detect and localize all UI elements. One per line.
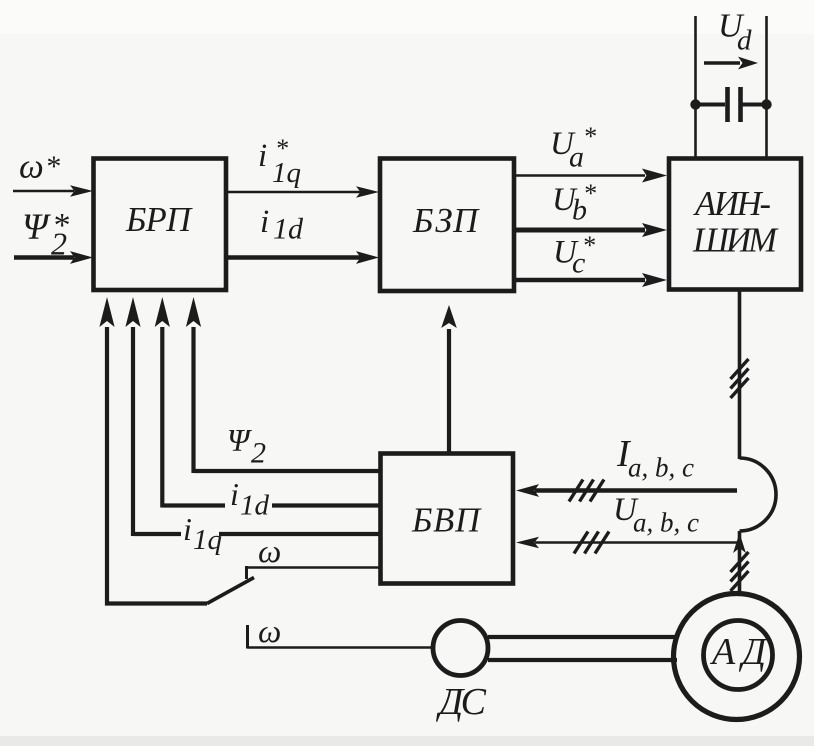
block БЗП [380, 159, 514, 292]
label ω estimated [258, 534, 281, 570]
wire 3-phase to motor lower [738, 531, 742, 594]
wire Ψ2 БВП to БРП [186, 297, 381, 473]
label Ψ2 [227, 422, 266, 470]
label i1q* [258, 134, 301, 189]
wire ω from ДС [248, 646, 434, 649]
wire ω from БВП [247, 566, 381, 569]
shaft lower line [488, 658, 677, 662]
svg-text:ω: ω [258, 614, 281, 650]
block БРП [94, 159, 227, 291]
motor АД inner circle [704, 621, 773, 690]
wire Ud left vertical [694, 16, 697, 159]
svg-text:БВП: БВП [411, 502, 482, 540]
switch contact upper [245, 566, 248, 579]
label АД [709, 631, 768, 673]
arrow Ud direction [704, 57, 758, 70]
svg-text:ДС: ДС [436, 681, 487, 723]
block БВП [381, 454, 514, 584]
shaft upper line [488, 635, 677, 639]
svg-text:БЗП: БЗП [412, 202, 480, 240]
wire Uc* БЗП to АИН-ШИМ [514, 273, 667, 287]
label i1d feedback [230, 476, 270, 522]
slash marks U a,b,c [574, 532, 609, 554]
slash marks 3-phase upper [731, 359, 749, 398]
label Ua* [550, 122, 596, 174]
arrow voltage tap [733, 533, 746, 553]
junction dot left [690, 99, 700, 109]
label Uc* [553, 231, 595, 280]
switch contact lower [246, 625, 249, 649]
wire ω common to БРП [99, 297, 207, 606]
svg-text:БРП: БРП [125, 201, 193, 239]
slash marks 3-phase lower [731, 552, 749, 591]
wire Ub* БЗП to АИН-ШИМ [514, 223, 667, 237]
label U a,b,c [613, 492, 699, 538]
block АИН-ШИМ [669, 159, 801, 290]
wire i1d БРП to БЗП [226, 251, 379, 264]
wire i1d БВП to БРП [155, 297, 381, 508]
svg-text:ω*: ω* [19, 147, 60, 186]
label i1q feedback [183, 511, 222, 556]
current sensor loop [740, 458, 776, 531]
wire i1q* БРП to БЗП [226, 186, 379, 198]
svg-text:ШИМ: ШИМ [692, 222, 779, 260]
slash marks I a,b,c [569, 480, 604, 502]
wire 3-phase АИН-ШИМ to motor upper [738, 290, 742, 459]
wire Ud right vertical [765, 16, 768, 159]
label Ud [718, 8, 752, 57]
label ω* [19, 147, 60, 186]
junction dot right [761, 99, 771, 109]
svg-text:АИН-: АИН- [693, 185, 771, 223]
switch blade [207, 578, 254, 604]
wire i1q БВП to БРП [125, 297, 380, 536]
capacitor C filter [696, 87, 767, 122]
label ω measured [258, 614, 281, 650]
label i1d [260, 204, 304, 246]
svg-text:ω: ω [258, 534, 281, 570]
wire Ψ2* input to БРП [14, 251, 93, 264]
wire I a,b,c to БВП [516, 484, 737, 497]
wire Ua* БЗП to АИН-ШИМ [514, 169, 667, 183]
label I a,b,c [616, 433, 694, 483]
speed sensor ДС [433, 621, 488, 676]
label Ψ2* [22, 207, 69, 262]
label ДС [436, 681, 487, 723]
motor АД outer circle [674, 594, 800, 720]
wire U a,b,c to БВП [516, 537, 738, 549]
label Ub* [552, 179, 596, 227]
wire ω* input to БРП [13, 185, 93, 197]
wire БВП to БЗП [441, 305, 457, 454]
